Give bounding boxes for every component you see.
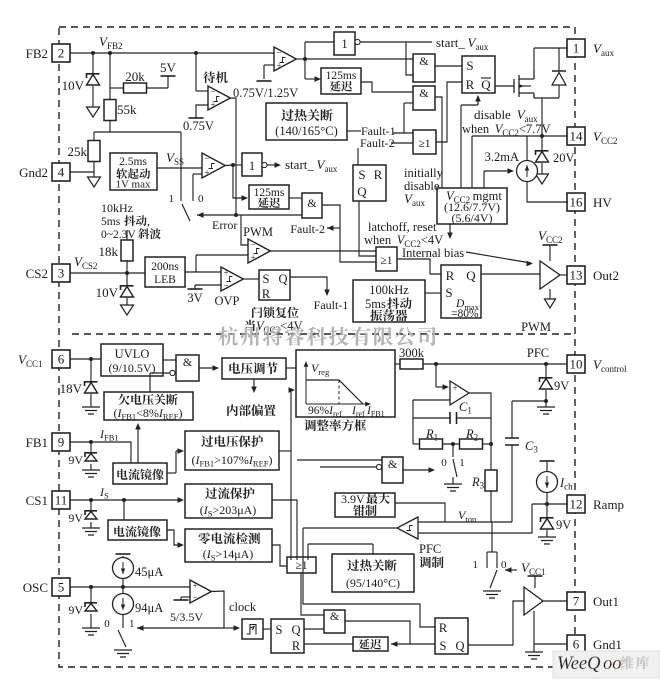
pin 1 Vaux [567, 39, 585, 57]
wire comp2 branch [304, 42, 306, 79]
wire diode top [558, 48, 560, 71]
open arrow below 10V zener [87, 107, 100, 117]
switch lever OSC [118, 630, 126, 647]
zener 20V [536, 151, 549, 155]
latch SQ-R OVP [259, 270, 290, 300]
wire 25k top lead [93, 132, 95, 140]
one-shot symbol [247, 625, 257, 635]
svg-text:S: S [276, 623, 283, 637]
pin 6 Gnd1 [567, 635, 585, 653]
svg-text:R: R [466, 77, 475, 92]
zener 10V (CS2) [121, 286, 134, 290]
svg-text:S: S [440, 639, 447, 653]
junction R1R2 [451, 442, 455, 446]
svg-text:&: & [307, 196, 317, 210]
wire vr down [253, 379, 255, 390]
op-amp error amp [450, 381, 469, 405]
switch lever (soft start) [182, 204, 190, 221]
wire latch4 to Fault-1 [290, 277, 327, 293]
junction OSC zener [89, 585, 93, 589]
svg-text:S: S [445, 285, 452, 300]
resistor R3 [485, 470, 497, 491]
wire vr to regbox [286, 367, 296, 369]
wire C1 right [457, 417, 492, 419]
logo text weiku [620, 656, 649, 669]
wire diode bottom [558, 85, 560, 98]
inverter bubble [262, 162, 267, 167]
svg-text:16: 16 [570, 195, 584, 210]
wire to 9V zener OSC [90, 587, 92, 602]
junction comp out [231, 163, 235, 167]
resistor 18k [121, 240, 133, 261]
arrowhead into delay [391, 641, 398, 647]
wire to pin Vaux [534, 47, 568, 49]
wire Ich bottom [546, 492, 548, 504]
wire standby minus [195, 53, 197, 91]
svg-text:S: S [263, 272, 270, 286]
wire osc to S [425, 292, 441, 294]
label latch reset caption [252, 307, 299, 318]
svg-text:9V: 9V [68, 511, 83, 525]
wire isrc to HV pin [527, 182, 568, 202]
block 3.9V clamp [335, 493, 395, 517]
wire Fault-2 tap [327, 227, 340, 229]
svg-text:3.2mA: 3.2mA [485, 150, 519, 164]
svg-text:25k: 25k [68, 144, 88, 159]
ground 9V OSC [82, 628, 100, 635]
arrowhead into isrc [508, 168, 515, 174]
wire to 125ms delay 2 [233, 165, 245, 198]
and gate A4 [176, 355, 199, 381]
svg-text:+: + [276, 61, 281, 71]
wire to 10V zener 2 [126, 273, 128, 285]
svg-text:R: R [292, 639, 301, 653]
wire OCP out to or3 [272, 500, 297, 560]
wire switch R1R2 top [452, 444, 454, 457]
block current mirror 2 [108, 520, 167, 540]
wire Ich top [546, 461, 548, 472]
wire to 5V [167, 76, 169, 88]
wire 20k left lead [110, 87, 124, 89]
pin 12 Ramp [567, 495, 585, 513]
svg-text:=80%: =80% [451, 308, 479, 320]
svg-text:Q: Q [481, 77, 491, 92]
wire Fault-2 into or [391, 142, 413, 144]
wire driver1 to pin7 [543, 600, 567, 602]
arrowhead into 125ms upper [315, 76, 322, 82]
wire osc ref [180, 597, 182, 600]
wire LEB to PWM comp [195, 255, 197, 272]
svg-text:OVP: OVP [214, 294, 239, 308]
svg-text:+: + [204, 168, 209, 178]
svg-text:Fault-2: Fault-2 [290, 222, 325, 236]
block 125ms delay lower [249, 185, 289, 209]
regulation curve [306, 380, 363, 404]
svg-text:Q: Q [466, 268, 476, 283]
arrowhead into 125ms delay 2 [242, 195, 249, 201]
svg-text:1: 1 [129, 618, 135, 630]
wire Qbar to gate [495, 85, 514, 87]
label PFC mod 2 [419, 557, 443, 569]
svg-text:+: + [192, 581, 197, 591]
wire post0 stub [193, 173, 202, 175]
svg-text:Fault-1: Fault-1 [314, 298, 349, 312]
5V supply bar [161, 75, 176, 77]
wire comp2 to and1 [305, 58, 413, 60]
comparator PFC modulator [397, 517, 418, 539]
svg-text:PWM: PWM [243, 225, 273, 239]
wire 25k bottom lead [93, 162, 95, 177]
svg-text:OSC: OSC [23, 580, 48, 595]
junction ramp [545, 502, 549, 506]
open arrow below 10V zener 2 [121, 305, 134, 315]
wire delay out to latch5 R [304, 643, 353, 645]
wire to 20V zener [541, 136, 543, 150]
wire clock back to switch [137, 627, 224, 629]
wire zener2 bottom [126, 298, 128, 305]
ramp switch post 1 [486, 552, 488, 568]
driver buffer Out1 [524, 587, 543, 615]
VCC1 bar driver [528, 575, 543, 577]
arrowhead into ZCD [178, 542, 185, 548]
junction C3 top [544, 399, 548, 403]
svg-text:200ns: 200ns [151, 261, 179, 273]
ramp switch top tie [487, 551, 497, 553]
ground 9V vcontrol [537, 407, 555, 414]
svg-text:R: R [439, 621, 448, 635]
svg-text:CS1: CS1 [26, 493, 48, 508]
open arrow below 20V zener [536, 174, 549, 184]
wire mgmt to isrc [483, 171, 485, 188]
block overheat shutdown 95/140 [332, 554, 414, 592]
wire VCC1 net [70, 358, 101, 360]
block VCC2 mgmt [437, 188, 507, 224]
pin 5 OSC [52, 578, 70, 596]
svg-text:1V max: 1V max [116, 179, 151, 191]
wire to delay and S [391, 643, 435, 645]
block delay [353, 637, 388, 651]
wire Vton net [418, 521, 512, 523]
svg-text:1: 1 [249, 159, 255, 173]
switch lever R1R2 [453, 459, 457, 477]
junction FB2/divider [108, 51, 112, 55]
Ich supply bar [540, 460, 555, 462]
wire CS1 down to mirror2 [123, 500, 125, 520]
junction VCC2 node [540, 134, 544, 138]
wire 20V zener bottom [541, 163, 543, 174]
svg-text:&: & [330, 609, 340, 623]
wire start_Vaux top [360, 41, 432, 43]
wire or2 to latch3 R [397, 259, 441, 274]
wire standby out down [230, 98, 236, 215]
pin 13 Out2 [567, 266, 585, 284]
svg-text:0: 0 [441, 457, 447, 469]
wire standby plus ref [196, 105, 208, 118]
svg-text:9V: 9V [556, 518, 571, 532]
svg-text:−: − [276, 48, 281, 58]
wire source node [534, 97, 559, 99]
wire 94uA bottom [122, 614, 124, 628]
wire vcc1 to driver1 [534, 576, 536, 588]
svg-text:+: + [452, 383, 457, 393]
wire 9V zener to gnd [545, 390, 547, 407]
junction OSC isrc [121, 585, 125, 589]
svg-text:WeeQ: WeeQ [557, 654, 601, 674]
wire A6 out [403, 469, 432, 471]
zener 9V (OSC) [85, 603, 97, 607]
wire comp2 out [296, 58, 305, 60]
arrowhead into voltage-reg [213, 365, 220, 371]
label internal bias cn [227, 404, 276, 416]
and gate A1 [413, 54, 435, 82]
wire and5 out [345, 621, 410, 644]
junction CS2 [125, 271, 129, 275]
and gate A2 [413, 86, 435, 110]
arrowhead Error [197, 212, 204, 218]
IC boundary dashed border [59, 27, 575, 667]
wire 20k right lead [146, 87, 168, 89]
arrowhead A6 out [429, 467, 436, 473]
wire internal bias diagonal [466, 252, 531, 263]
svg-text:100kHz: 100kHz [369, 283, 409, 297]
arrowhead Fault-2 tap [327, 225, 334, 231]
junction FB1 [89, 440, 93, 444]
wire PFC mod out [303, 527, 397, 529]
arrowhead ramp switch [505, 567, 512, 573]
ground ramp switch [483, 591, 501, 598]
svg-text:300k: 300k [399, 346, 425, 360]
driver buffer Out2 [540, 261, 560, 289]
svg-text:12: 12 [570, 497, 583, 512]
current source 3.2mA [517, 161, 538, 182]
svg-text:−: − [192, 593, 197, 603]
wire oneshot to latch5 [263, 628, 271, 630]
regulation graph axes [306, 364, 368, 404]
wire to 18V zener [90, 359, 92, 381]
svg-text:3V: 3V [187, 291, 202, 305]
svg-text:18k: 18k [99, 244, 119, 259]
block overcurrent protection [185, 484, 272, 518]
svg-text:2.5ms: 2.5ms [119, 156, 147, 168]
svg-text:&: & [388, 457, 398, 471]
wire LEB out [185, 271, 221, 273]
arrowhead clock to switch [137, 625, 144, 631]
wire ramp switch riser [491, 533, 493, 552]
wire R3 top lead [490, 444, 492, 470]
svg-text:PFC: PFC [527, 346, 549, 360]
open arrow driver gnd [545, 299, 556, 308]
wire to 9V zener ramp [546, 504, 548, 517]
svg-text:5V: 5V [160, 60, 177, 75]
wire to 9V zener CS1 [90, 500, 92, 510]
block overvoltage protection [185, 431, 279, 470]
junction R2 out [489, 442, 493, 446]
block oscillator 100kHz [353, 280, 425, 322]
wire and A3 out / fault bus [322, 205, 376, 262]
wire ZCD out to or3 [272, 545, 287, 566]
wire or1 to R [436, 82, 462, 142]
zener 9V (Vcontrol) [540, 378, 553, 382]
pin 16 HV [567, 193, 585, 211]
zener 10V (FB2) [87, 74, 100, 78]
svg-text:(5.6/4V): (5.6/4V) [452, 211, 493, 225]
wire comp to 1-box [233, 164, 242, 166]
wire to 10V zener [92, 53, 94, 73]
svg-text:Q: Q [455, 639, 464, 653]
wire 9V CS1 gnd [90, 522, 92, 528]
svg-text:13: 13 [570, 268, 583, 283]
and gate A5 [324, 610, 345, 633]
zener 9V (CS1) [85, 511, 97, 515]
arrowhead into latch bottom [475, 95, 481, 102]
svg-text:11: 11 [55, 493, 68, 508]
wire latch3 Q to driver [481, 273, 540, 275]
junction FB2/zener [91, 51, 95, 55]
wire vton to ramp sw [491, 522, 493, 533]
comparator soft-start [202, 153, 225, 178]
current source 94uA [113, 594, 134, 615]
svg-text:5ms: 5ms [101, 216, 121, 228]
svg-text:−: − [204, 154, 209, 164]
svg-text:18V: 18V [60, 381, 83, 396]
svg-text:6: 6 [58, 352, 65, 367]
wire SR2 Q to or2 [359, 201, 376, 256]
svg-text:0: 0 [198, 193, 204, 205]
svg-text:R: R [446, 268, 455, 283]
wire to 9V zener FB1 [90, 442, 92, 452]
svg-text:1: 1 [473, 559, 479, 571]
svg-text:10V: 10V [62, 78, 85, 93]
regulation dashed knee [338, 380, 340, 404]
wire error to PWM comp [241, 215, 248, 245]
wire UVP to and4 [149, 373, 151, 392]
wire VCC2 net [472, 135, 568, 137]
wire 3V ref [194, 285, 196, 289]
svg-text:S: S [466, 58, 473, 73]
wire ref 0.75/1.25 [263, 65, 265, 79]
svg-text:≥1: ≥1 [295, 560, 307, 572]
block voltage regulation [222, 358, 286, 379]
svg-text:125ms: 125ms [326, 70, 357, 82]
wire C3 top link [512, 400, 546, 402]
arrowhead internal bias down [251, 387, 257, 394]
latch SR-Qbar [462, 56, 495, 93]
or gate OR3 [287, 557, 316, 573]
wire OTP to Fault-1 [347, 130, 361, 132]
svg-text:PWM: PWM [521, 320, 551, 334]
svg-text:FB2: FB2 [26, 46, 48, 61]
wire PWM comp out [270, 250, 376, 252]
wire and2 down to mgmt [435, 97, 442, 188]
svg-text:Error: Error [212, 218, 237, 232]
0.75V ref bar [189, 117, 204, 119]
wire OVP1 out [279, 450, 291, 452]
wire C1 left [413, 417, 450, 419]
wire OSC net [70, 586, 190, 588]
wire driver to pin13 [560, 274, 567, 276]
svg-text:R: R [262, 287, 271, 301]
wire Fault-1 into or [393, 132, 413, 134]
wire mirror2 to ZCD [167, 530, 181, 545]
or gate OR2 [376, 247, 397, 271]
wire 18k top lead [126, 230, 128, 240]
svg-text:10: 10 [570, 357, 583, 372]
svg-text:+: + [210, 100, 215, 110]
wire driver gnd [549, 289, 551, 299]
wire Gnd2 to 25k [70, 171, 94, 173]
svg-text:LEB: LEB [154, 274, 176, 286]
label standby [203, 71, 228, 83]
wire ramp to PFC mod [418, 504, 532, 533]
label when VCC2<4V caption [245, 320, 255, 331]
wire C3 top lead [511, 401, 513, 438]
wire 18k bottom lead [126, 260, 128, 273]
svg-text:&: & [419, 54, 429, 68]
svg-text:initially: initially [404, 166, 444, 180]
svg-text:−: − [223, 281, 228, 291]
svg-text:R: R [374, 167, 383, 182]
wire latch5 Q to and5 [304, 628, 324, 630]
and gate A6 [382, 457, 403, 483]
svg-text:Out2: Out2 [593, 268, 619, 283]
wire zener to arrow [92, 86, 94, 107]
block overheat shutdown 140/165 [266, 103, 347, 140]
wire lever to gnd [452, 477, 454, 484]
svg-text:UVLO: UVLO [115, 347, 150, 361]
comparator PWM [248, 239, 270, 263]
svg-text:2: 2 [58, 46, 65, 61]
svg-text:Gnd2: Gnd2 [19, 165, 48, 180]
wire mirror1 to OVP1 [175, 451, 177, 473]
wire bus reg left [290, 390, 292, 560]
svg-text:+: + [250, 253, 255, 263]
svg-text:7: 7 [573, 594, 580, 609]
block zero current detect [185, 529, 272, 562]
junction FB2/standby [194, 51, 198, 55]
svg-text:oo: oo [603, 654, 622, 674]
pin 11 CS1 [52, 491, 70, 509]
wire CS2 net [70, 272, 145, 274]
arrowhead Fault-1 down [324, 290, 330, 297]
arrowhead mirror1 to UVP [135, 423, 141, 430]
svg-text:≥1: ≥1 [418, 138, 430, 150]
wire VSS [157, 167, 202, 169]
pin 9 FB1 [52, 433, 70, 451]
one-shot edge box [242, 619, 263, 639]
svg-text:−: − [250, 240, 255, 250]
svg-text:1: 1 [341, 37, 347, 51]
junction 9V [544, 362, 548, 366]
current source Ich [537, 472, 558, 493]
arrowhead into oneshot [234, 625, 241, 631]
gate 1 box top [334, 32, 355, 55]
svg-text:clock: clock [229, 600, 257, 614]
wire latch6 Q to driver1 [468, 601, 524, 645]
ground 9V FB1 [82, 470, 100, 477]
svg-text:Fault-2: Fault-2 [360, 136, 395, 150]
svg-text:+: + [223, 268, 228, 278]
inverter bubble top [355, 39, 360, 44]
svg-text:9V: 9V [68, 603, 83, 617]
svg-text:(9/10.5V): (9/10.5V) [109, 361, 156, 375]
open arrow below 25k [88, 177, 101, 187]
junction CS1 [89, 498, 93, 502]
block UVLO [101, 344, 163, 376]
latch RS-Q bottom right [435, 618, 468, 654]
arrowhead into OVP block [178, 448, 185, 454]
wire mgmt to latch [460, 105, 462, 188]
pin 2 FB2 [52, 44, 70, 62]
